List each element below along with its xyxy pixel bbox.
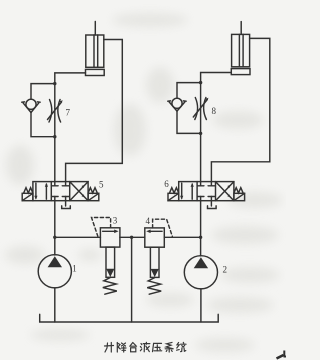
- relief valve 3 poppet housing: [106, 247, 115, 277]
- throttle valve 7: [49, 100, 52, 123]
- wire rod-side right cylinder: [211, 38, 269, 181]
- node: tee to relief valve 4: [199, 236, 202, 239]
- svg-text:2: 2: [223, 265, 228, 275]
- valve 5 left solenoid box: [22, 193, 33, 200]
- cylinder rod line (left): [94, 22, 96, 36]
- svg-text:5: 5: [99, 180, 104, 190]
- pump 1: [38, 255, 71, 288]
- valve 6 left square arrows: [181, 183, 183, 198]
- node: junction top of right branch: [199, 81, 202, 84]
- valve 5 left square arrows: [35, 183, 37, 198]
- char 系: [165, 342, 173, 352]
- pump 2: [184, 256, 217, 289]
- cylinder bottom block (left): [86, 69, 105, 75]
- wire relief 4 outlet to drain: [132, 236, 145, 238]
- svg-text:7: 7: [66, 108, 71, 118]
- cylinder rod line (right): [240, 22, 242, 35]
- valve 5 left spring: [24, 188, 33, 193]
- relief valve 3 square: [100, 228, 120, 247]
- check valve (right): [172, 98, 182, 108]
- throttle valve 8: [195, 98, 198, 120]
- check valve (left): [26, 99, 36, 109]
- relief valve 3 pilot dashed line: [92, 218, 111, 237]
- char 压: [153, 343, 162, 351]
- node: junction bottom of right branch: [199, 132, 202, 135]
- node: drain junction: [130, 236, 133, 239]
- relief valve 4 spring: [147, 278, 161, 295]
- wire relief 4 inlet: [164, 236, 200, 238]
- wire relief 3 outlet to drain: [120, 236, 132, 238]
- char 台: [130, 343, 137, 352]
- wire check-valve branch left: [31, 84, 55, 100]
- valve 6 centre square blocked ports: [200, 182, 202, 186]
- node: junction top of left branch: [53, 82, 56, 85]
- valve 6 body (3-position directional valve): [179, 182, 234, 201]
- svg-text:8: 8: [212, 106, 217, 116]
- relief valve 3 poppet cone: [106, 269, 114, 277]
- valve 6 right spring: [234, 188, 243, 193]
- svg-text:4: 4: [146, 216, 151, 226]
- wire rod-side left cylinder: [66, 40, 123, 182]
- title: 升降台液压系统 (drawn strokes): [105, 342, 187, 352]
- valve 5 right square crossed arrows: [70, 182, 88, 201]
- relief valve 4 poppet cone: [151, 269, 159, 277]
- relief valve 4 square: [145, 228, 165, 247]
- cylinder bottom block (right): [231, 69, 250, 75]
- tank symbol under valve 6: [210, 201, 212, 206]
- valve 5 body (3-position directional valve): [33, 182, 88, 201]
- node: tee to relief valve 3: [53, 236, 56, 239]
- tank rail: [40, 314, 219, 322]
- wire P-line valve 5 to pump 1: [54, 201, 56, 255]
- wire common drain to tank rail: [131, 237, 133, 322]
- svg-text:6: 6: [164, 179, 169, 189]
- valve 6 right square crossed arrows: [216, 182, 234, 201]
- tank symbol under valve 5: [65, 201, 67, 206]
- node: junction bottom of left branch: [53, 135, 56, 138]
- wire bottom port left cylinder: [55, 73, 86, 84]
- relief valve 4 poppet housing: [150, 247, 159, 277]
- valve 6 left spring: [170, 188, 179, 193]
- valve 5 centre square blocked ports: [54, 182, 56, 186]
- wire pump 2 to tank rail: [200, 289, 202, 322]
- char 升: [105, 343, 114, 353]
- char 降: [117, 343, 126, 353]
- cylinder barrel (right): [232, 34, 250, 66]
- wire main line left (through throttle): [54, 84, 56, 182]
- char 统: [177, 342, 186, 351]
- valve 5 right spring: [88, 188, 97, 193]
- valve 6 left solenoid box: [168, 193, 179, 200]
- wire bottom port right cylinder: [201, 73, 232, 83]
- char 液: [140, 342, 149, 352]
- cylinder plunger (left): [93, 35, 95, 67]
- corner artifact bottom-right: [277, 351, 287, 359]
- valve 5 right solenoid box: [88, 193, 99, 200]
- wire check-valve branch right: [177, 83, 201, 99]
- relief valve 3 spring: [103, 278, 117, 295]
- wire main line right (through throttle): [200, 83, 202, 182]
- wire P-line valve 6 to pump 2: [200, 201, 202, 256]
- svg-text:3: 3: [113, 216, 118, 226]
- cylinder plunger (right): [238, 34, 240, 66]
- wire pump 1 to tank rail: [54, 288, 56, 322]
- cylinder barrel (left, cylinder for lift table): [86, 35, 104, 67]
- valve 6 right solenoid box: [234, 193, 245, 200]
- wire relief 3 inlet: [55, 236, 101, 238]
- relief valve 4 pilot dashed line: [153, 219, 173, 236]
- svg-text:1: 1: [72, 264, 77, 274]
